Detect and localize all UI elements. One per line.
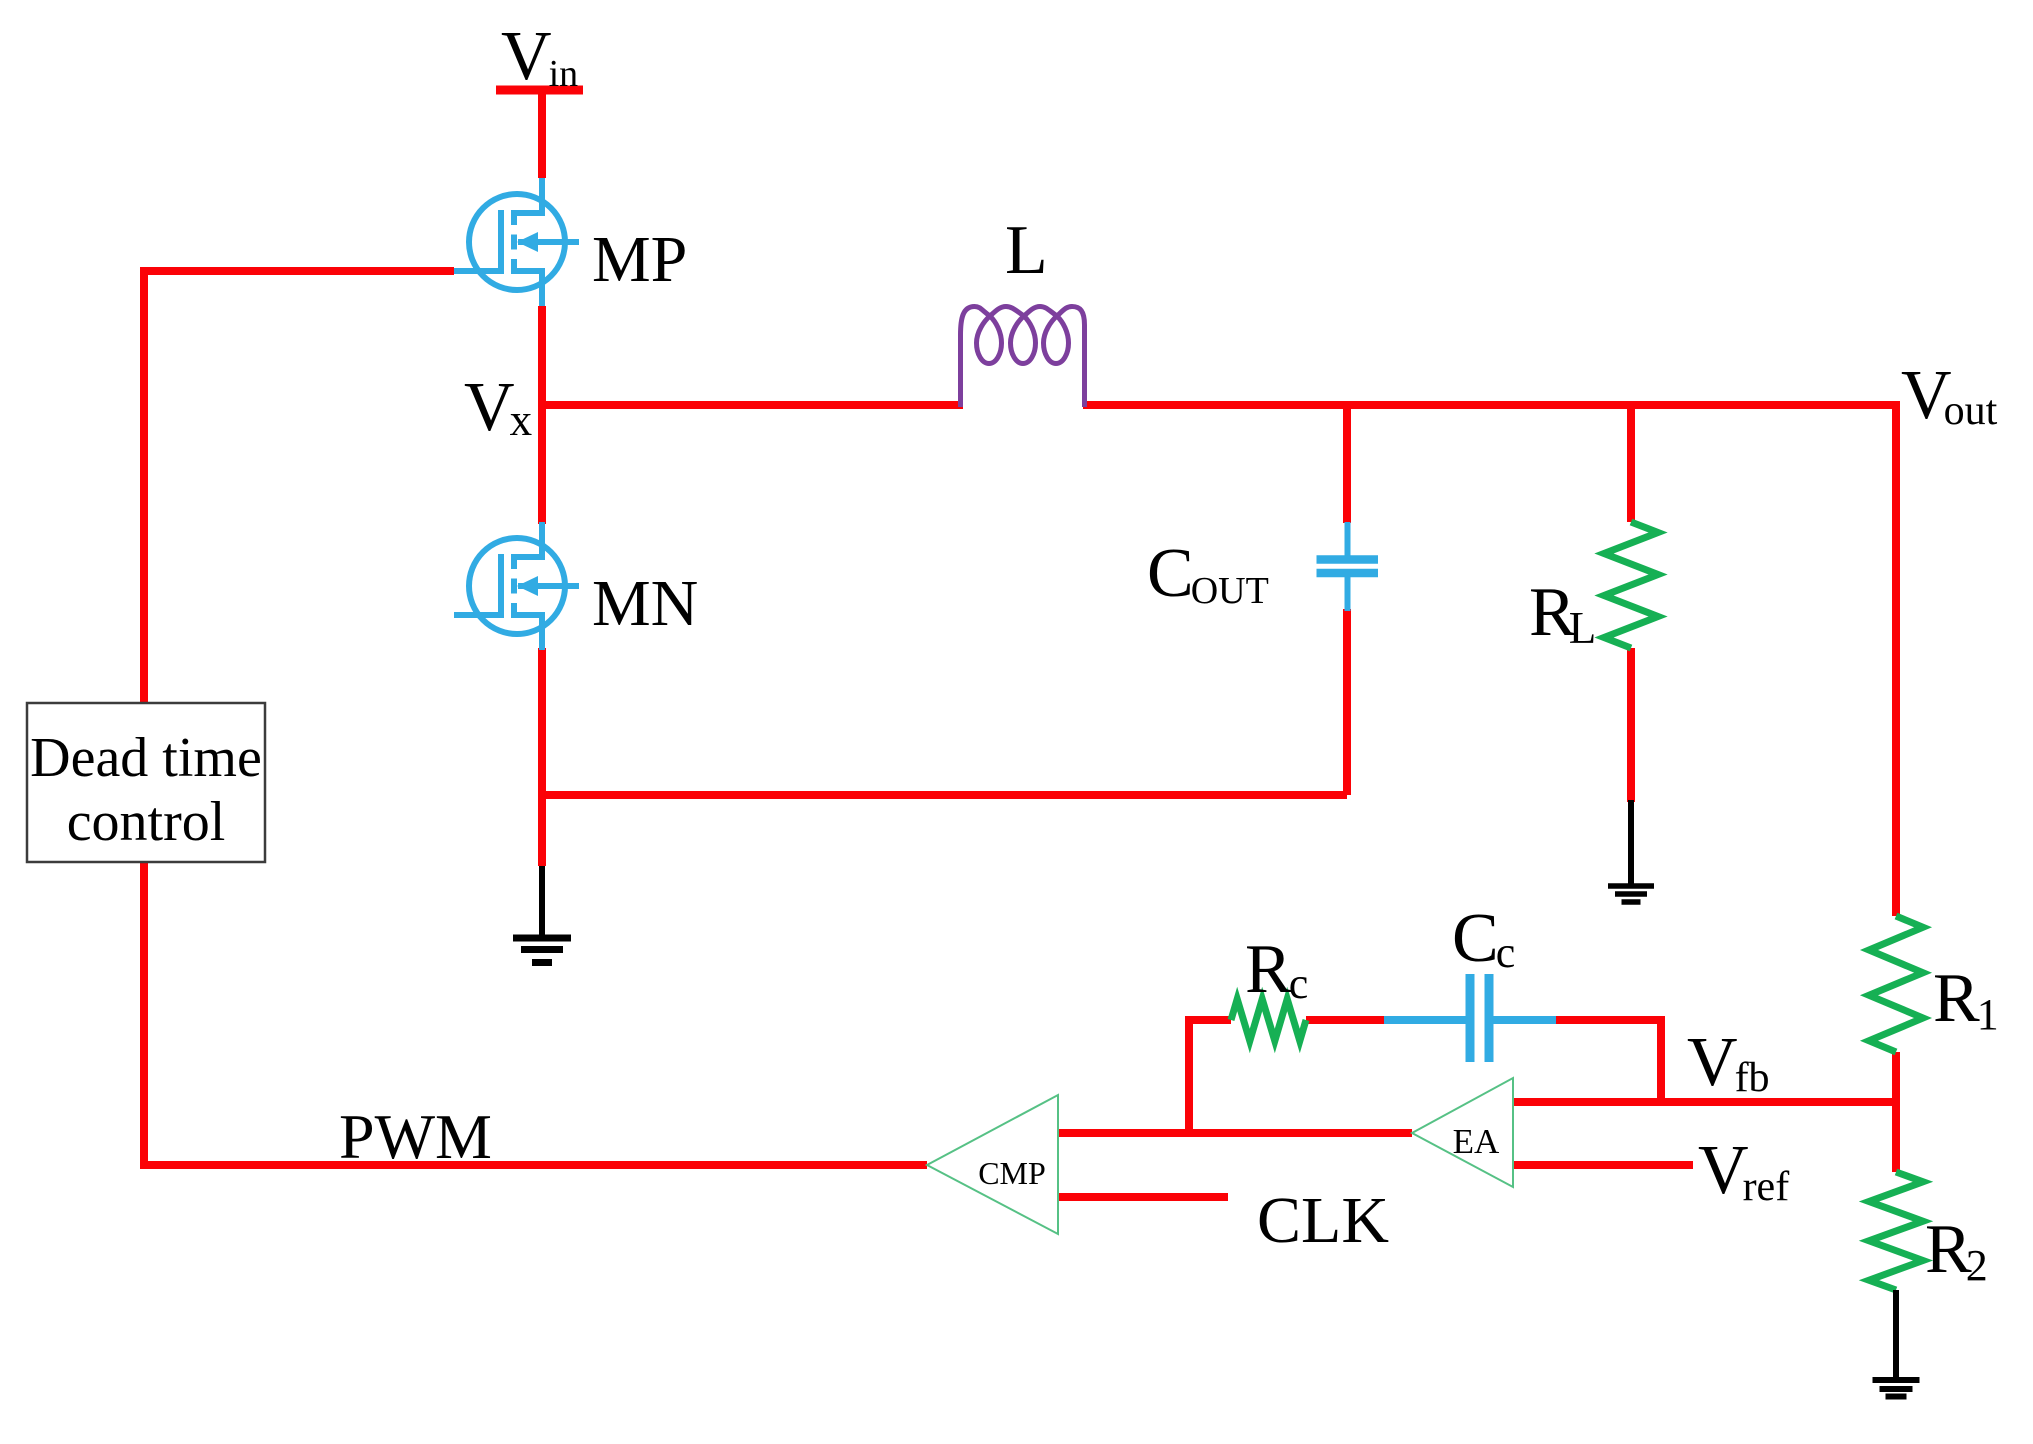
wire PWM from CMP to dead-time control [144,862,927,1165]
wire Vx node to inductor [542,401,963,409]
svg-text:PWM: PWM [339,1101,492,1172]
resistor RL [1604,522,1658,648]
svg-text:control: control [67,791,226,853]
wire Vin to MP drain [538,90,546,178]
resistor Rc [1231,999,1306,1041]
wire Vref stub [1513,1161,1693,1169]
transistor MP gate bar [498,210,504,274]
transistor MP bulk lead with arrow [518,239,579,245]
capacitor Cc [1384,1016,1466,1024]
transistor MP drain lead [514,178,542,213]
wire inductor to Vout corner [1083,401,1900,409]
wire R1 to Vfb node [1892,1052,1900,1102]
wire Vfb node to R2 [1892,1102,1900,1172]
wire MP source to Vx node [538,306,546,409]
capacitor COUT [1345,522,1351,556]
transistor MP body circle [469,194,565,290]
wire MN source down [538,648,546,866]
wire Cc right lead red [1556,1016,1665,1024]
transistor MN channel (dashed) [511,554,517,618]
svg-text:EA: EA [1453,1122,1500,1161]
error amplifier EA [1412,1078,1513,1187]
dead time control block [27,703,265,862]
svg-text:MP: MP [592,223,687,296]
ground (RL) [1628,800,1634,886]
svg-text:Dead time: Dead time [30,727,262,789]
transistor MN gate lead stub [454,612,501,618]
wire RL top branch [1627,405,1635,522]
ground (MN source) [539,866,545,938]
transistor MN drain lead [514,522,542,557]
ground (R2) [1893,1290,1899,1380]
svg-text:L: L [1005,212,1048,289]
svg-text:MN: MN [592,567,698,640]
transistor MN bulk lead with arrow [518,583,579,589]
wire Rc to Cc [1306,1016,1384,1024]
wire dead-time control to MP gate [144,271,454,703]
wire Rc left lead [1185,1016,1231,1024]
wire Vfb horizontal [1513,1098,1900,1106]
resistor R1 [1869,916,1923,1052]
comparator CMP [927,1095,1058,1234]
Vin supply bar [496,86,583,95]
transistor MP source lead [514,271,542,306]
wire compensation riser left [1185,1020,1193,1133]
transistor MP channel (dashed) [511,210,517,274]
wire CLK stub [1058,1193,1228,1201]
wire Vx node to MN drain [538,405,546,524]
transistor MN source lead [514,615,542,650]
svg-text:CLK: CLK [1257,1184,1389,1257]
wire Cout bottom return [542,791,1347,799]
wire Cout top branch [1343,405,1351,523]
resistor R2 [1869,1172,1923,1290]
svg-text:CMP: CMP [978,1155,1046,1191]
transistor MN gate bar [498,554,504,618]
transistor MN body circle [469,538,565,634]
wire compensation riser right to Vfb [1657,1020,1665,1102]
wire Vout branch down to R1 [1892,401,1900,916]
wire EA output to CMP input [1058,1129,1412,1137]
transistor MP gate lead stub [454,268,501,274]
inductor L [961,307,1085,408]
wire RL bottom to ground [1627,648,1635,802]
wire Cout bottom lead to return [1343,609,1351,795]
